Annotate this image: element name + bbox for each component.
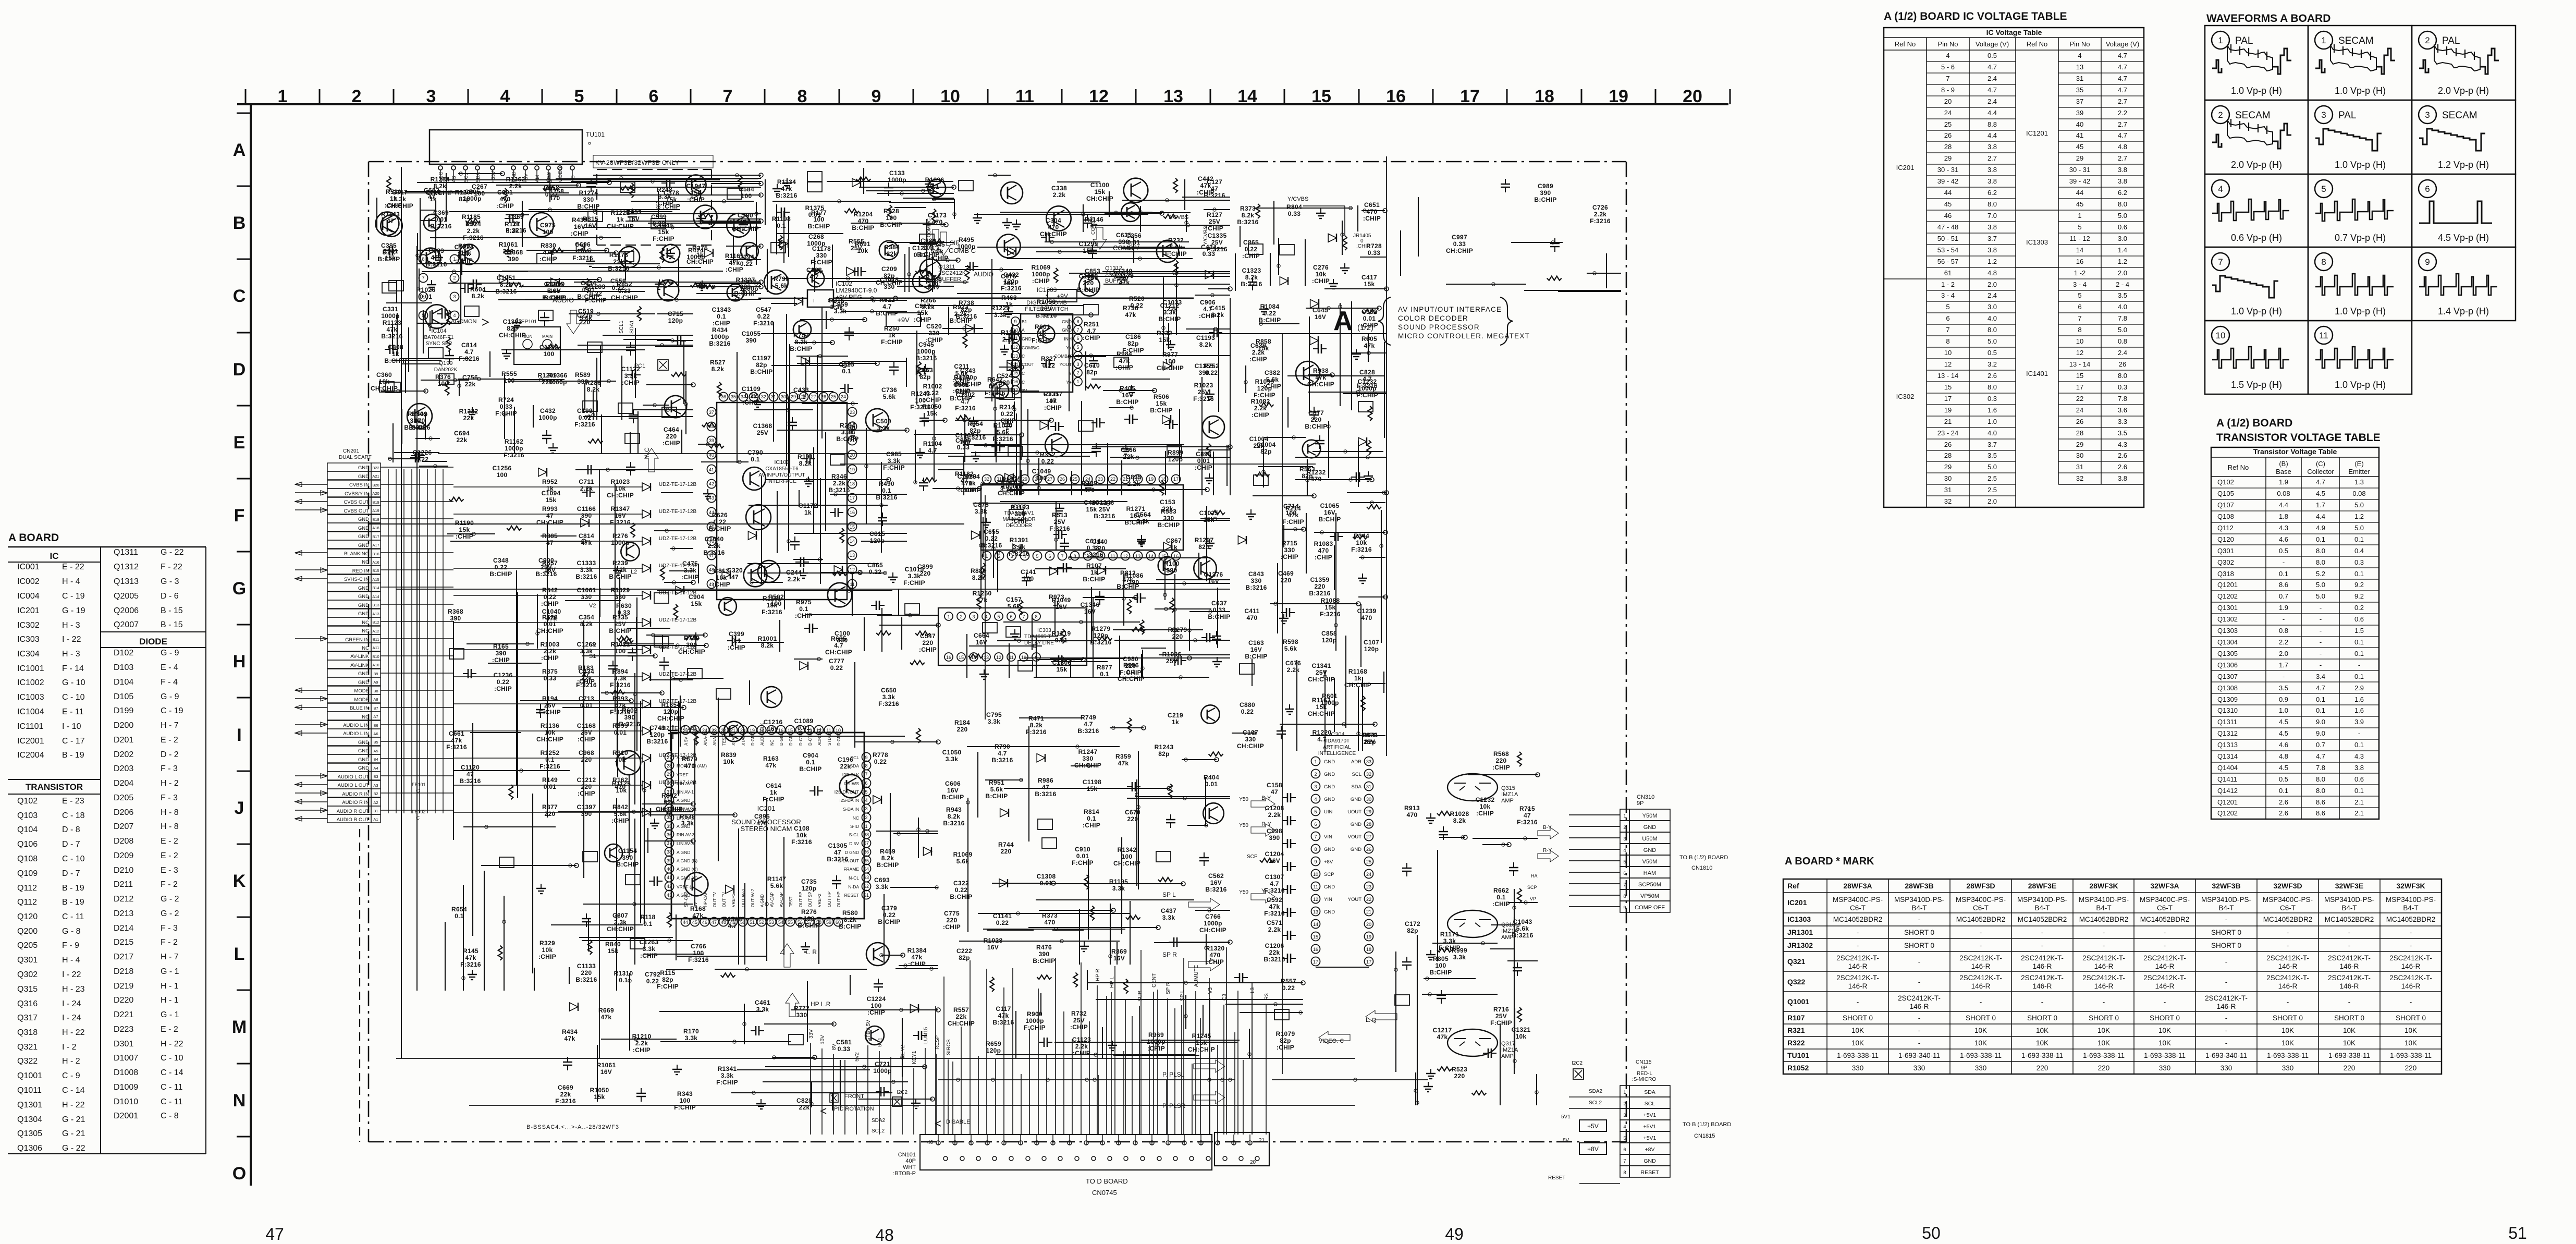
svg-text:36: 36 bbox=[667, 832, 672, 837]
svg-text:23: 23 bbox=[850, 410, 855, 415]
svg-text:Q200: Q200 bbox=[17, 927, 38, 936]
svg-text:C123: C123 bbox=[912, 245, 928, 252]
svg-text:BLANKING: BLANKING bbox=[344, 551, 369, 557]
svg-text:H - 4: H - 4 bbox=[62, 577, 80, 586]
svg-text:AUDIO R IN: AUDIO R IN bbox=[342, 791, 369, 797]
svg-text:C: C bbox=[1022, 380, 1025, 385]
svg-text:C880: C880 bbox=[1240, 701, 1255, 709]
svg-text:C469: C469 bbox=[1278, 570, 1294, 577]
svg-text:R796: R796 bbox=[774, 275, 789, 283]
svg-text:3.4: 3.4 bbox=[2316, 673, 2325, 680]
svg-text:IC1004: IC1004 bbox=[17, 708, 44, 716]
svg-text:D223: D223 bbox=[114, 1025, 133, 1034]
svg-text:C814: C814 bbox=[461, 342, 477, 349]
svg-text::CHIP: :CHIP bbox=[663, 440, 680, 447]
svg-text:0.22: 0.22 bbox=[1264, 310, 1277, 317]
svg-text:1-693-338-11: 1-693-338-11 bbox=[1960, 1052, 2002, 1059]
svg-text:15: 15 bbox=[1944, 383, 1952, 391]
svg-text:0.5: 0.5 bbox=[1988, 349, 1997, 357]
svg-text:GND: GND bbox=[1351, 822, 1361, 827]
svg-text:R804: R804 bbox=[1286, 203, 1302, 211]
svg-text:B:CHIP: B:CHIP bbox=[1318, 516, 1341, 523]
svg-text:15: 15 bbox=[1311, 87, 1331, 106]
svg-text:C1040: C1040 bbox=[542, 608, 561, 615]
svg-text:47k: 47k bbox=[1123, 576, 1134, 583]
svg-text:H - 22: H - 22 bbox=[161, 1040, 183, 1048]
svg-text:R322: R322 bbox=[1787, 1039, 1805, 1047]
svg-text:F:3216: F:3216 bbox=[1320, 611, 1341, 618]
svg-text:R789: R789 bbox=[1082, 480, 1097, 487]
svg-text:B:CHIP: B:CHIP bbox=[1116, 398, 1138, 406]
svg-text:3.3k: 3.3k bbox=[876, 883, 889, 891]
svg-text:C828: C828 bbox=[1359, 369, 1375, 376]
svg-text:40: 40 bbox=[2076, 120, 2083, 128]
svg-text:IC302: IC302 bbox=[17, 621, 40, 630]
svg-text:8.2k: 8.2k bbox=[712, 365, 725, 373]
svg-text:C645: C645 bbox=[1312, 307, 1328, 314]
svg-text:R321: R321 bbox=[1787, 1026, 1805, 1034]
svg-text:-: - bbox=[2041, 929, 2044, 936]
svg-text:Q316: Q316 bbox=[17, 999, 38, 1008]
svg-text:7: 7 bbox=[1022, 614, 1025, 619]
svg-text:R523: R523 bbox=[1452, 1066, 1467, 1073]
svg-text:220: 220 bbox=[1083, 279, 1094, 287]
svg-text:Q1301: Q1301 bbox=[2217, 604, 2238, 612]
svg-text:IC1303: IC1303 bbox=[1787, 915, 1811, 923]
svg-text:R251: R251 bbox=[1084, 321, 1099, 328]
svg-text:1k: 1k bbox=[888, 332, 896, 339]
svg-text::CHIP: :CHIP bbox=[577, 678, 595, 685]
svg-text:C107: C107 bbox=[1364, 639, 1379, 646]
svg-text:4.7: 4.7 bbox=[834, 642, 843, 649]
svg-text::CHIP: :CHIP bbox=[494, 685, 512, 692]
svg-text:B:CHIP: B:CHIP bbox=[384, 357, 407, 364]
svg-text:R250: R250 bbox=[884, 325, 900, 332]
svg-text:15k: 15k bbox=[1095, 188, 1106, 196]
svg-text:C900: C900 bbox=[955, 437, 971, 444]
svg-text:2SC2412K-T-: 2SC2412K-T- bbox=[1959, 974, 2002, 982]
svg-text:0.1: 0.1 bbox=[619, 977, 628, 984]
svg-text:46: 46 bbox=[1944, 212, 1952, 219]
svg-text:Q205: Q205 bbox=[17, 941, 38, 950]
svg-text::CHIP: :CHIP bbox=[728, 644, 745, 651]
svg-text:2: 2 bbox=[2425, 35, 2430, 45]
svg-text:R622: R622 bbox=[879, 296, 895, 303]
svg-text:100: 100 bbox=[814, 216, 825, 223]
svg-text:0.5: 0.5 bbox=[2279, 775, 2288, 783]
svg-text:1.3: 1.3 bbox=[2354, 478, 2364, 486]
svg-text:15k: 15k bbox=[1156, 400, 1167, 407]
svg-text:9.0: 9.0 bbox=[2316, 729, 2325, 737]
svg-text::CHIP: :CHIP bbox=[611, 817, 629, 824]
svg-text:F:3216: F:3216 bbox=[985, 389, 1005, 397]
svg-text:SCP: SCP bbox=[1324, 872, 1334, 877]
svg-text:Q1001: Q1001 bbox=[17, 1071, 42, 1080]
svg-text:C158: C158 bbox=[1267, 782, 1282, 789]
svg-text:R1347: R1347 bbox=[611, 505, 630, 513]
svg-text:CN101: CN101 bbox=[898, 1152, 916, 1158]
svg-text:B:CHIP: B:CHIP bbox=[1124, 519, 1147, 526]
svg-text:F:3216: F:3216 bbox=[1264, 910, 1285, 917]
svg-text:4: 4 bbox=[2078, 52, 2081, 59]
svg-text:R1147: R1147 bbox=[767, 875, 786, 883]
svg-text:5.6k: 5.6k bbox=[775, 282, 788, 289]
svg-text:390: 390 bbox=[624, 714, 635, 721]
svg-text:B4-T: B4-T bbox=[2218, 904, 2234, 912]
svg-text:32: 32 bbox=[984, 477, 989, 482]
svg-text:0.22: 0.22 bbox=[497, 678, 510, 686]
svg-text:146-R: 146-R bbox=[2155, 962, 2175, 970]
svg-text:C196: C196 bbox=[838, 756, 853, 763]
svg-text:R-Y: R-Y bbox=[1261, 821, 1272, 827]
svg-text:1.5: 1.5 bbox=[2354, 627, 2364, 635]
svg-text:GND: GND bbox=[1351, 797, 1361, 802]
svg-text:D211: D211 bbox=[114, 880, 133, 889]
svg-text:R753: R753 bbox=[793, 332, 809, 339]
svg-text:MSP3410D-PS-: MSP3410D-PS- bbox=[2324, 896, 2374, 904]
svg-text:2: 2 bbox=[865, 815, 867, 820]
svg-text:IC104: IC104 bbox=[431, 328, 446, 334]
svg-text:1000p: 1000p bbox=[538, 414, 557, 421]
svg-text:K: K bbox=[233, 871, 246, 891]
svg-text::CHIP: :CHIP bbox=[1011, 517, 1029, 525]
svg-text:146-R: 146-R bbox=[2217, 1003, 2236, 1010]
svg-text:B:CHIP: B:CHIP bbox=[949, 317, 972, 324]
svg-text:AGCMON: AGCMON bbox=[451, 319, 477, 325]
svg-text:R1049: R1049 bbox=[1052, 596, 1071, 604]
svg-text:0.1: 0.1 bbox=[842, 368, 851, 375]
svg-text:39: 39 bbox=[2076, 109, 2083, 117]
svg-text:4.7: 4.7 bbox=[2118, 75, 2127, 82]
svg-text::CHIP: :CHIP bbox=[1044, 404, 1062, 411]
svg-text:C717: C717 bbox=[392, 189, 408, 196]
svg-text:Base: Base bbox=[2276, 468, 2291, 475]
svg-text:390: 390 bbox=[450, 615, 461, 622]
svg-text:Q302: Q302 bbox=[17, 970, 38, 979]
svg-text:R232: R232 bbox=[1168, 237, 1184, 244]
svg-text:9: 9 bbox=[2425, 257, 2430, 267]
svg-text:B:CHIP: B:CHIP bbox=[807, 223, 830, 230]
svg-text:CH:CHIP: CH:CHIP bbox=[607, 223, 634, 230]
svg-text:C1355: C1355 bbox=[1195, 362, 1214, 370]
svg-text:A11: A11 bbox=[373, 645, 379, 650]
svg-text:SCP: SCP bbox=[1247, 854, 1258, 860]
svg-text:F:CHIP: F:CHIP bbox=[1282, 518, 1304, 526]
svg-text:19: 19 bbox=[1366, 934, 1371, 940]
svg-text:B4-T: B4-T bbox=[2341, 904, 2357, 912]
svg-text:B:CHIP: B:CHIP bbox=[790, 345, 812, 352]
svg-text::CHIP: :CHIP bbox=[1242, 252, 1260, 260]
svg-text:C599: C599 bbox=[651, 213, 667, 221]
svg-text:25: 25 bbox=[1944, 120, 1952, 128]
svg-text:IC002: IC002 bbox=[17, 577, 40, 586]
svg-text:TDA4665-T: TDA4665-T bbox=[1024, 634, 1051, 640]
svg-text:2: 2 bbox=[1623, 1101, 1626, 1107]
svg-text:R1023: R1023 bbox=[611, 478, 630, 485]
svg-text:8.2k: 8.2k bbox=[761, 642, 774, 649]
svg-text:3.8: 3.8 bbox=[1988, 143, 1997, 151]
svg-text:0.6: 0.6 bbox=[2118, 223, 2127, 231]
svg-text:B:3216: B:3216 bbox=[1245, 584, 1267, 591]
svg-text:A7: A7 bbox=[373, 714, 378, 719]
svg-text:4.7: 4.7 bbox=[928, 447, 937, 454]
svg-text:146-R: 146-R bbox=[2278, 982, 2298, 990]
svg-text:1 -2: 1 -2 bbox=[2074, 269, 2086, 277]
svg-text:R377: R377 bbox=[542, 803, 558, 811]
svg-text:D202: D202 bbox=[114, 750, 133, 759]
svg-text:G - 2: G - 2 bbox=[161, 909, 179, 918]
svg-text:8.0: 8.0 bbox=[2118, 200, 2127, 208]
svg-text:30 - 31: 30 - 31 bbox=[1937, 166, 1958, 174]
svg-text:F: F bbox=[234, 506, 245, 526]
svg-text:C1256: C1256 bbox=[493, 465, 512, 472]
svg-text:V3: V3 bbox=[1208, 987, 1213, 994]
svg-text:Q1201: Q1201 bbox=[2217, 798, 2238, 806]
svg-text:4.4: 4.4 bbox=[1988, 109, 1997, 117]
svg-text:B:CHIP: B:CHIP bbox=[1117, 583, 1139, 590]
svg-text:C1236: C1236 bbox=[494, 672, 513, 679]
svg-text:24: 24 bbox=[841, 394, 846, 399]
svg-text:330: 330 bbox=[2221, 1064, 2232, 1072]
svg-text:C382: C382 bbox=[1265, 369, 1280, 376]
svg-text:RESP: RESP bbox=[935, 1035, 940, 1050]
svg-text:A3: A3 bbox=[373, 783, 378, 788]
svg-text:47: 47 bbox=[834, 849, 841, 856]
svg-text:C958: C958 bbox=[544, 184, 559, 191]
svg-text:29: 29 bbox=[1366, 809, 1371, 814]
svg-text:A 5V: A 5V bbox=[684, 736, 689, 746]
svg-text:R149: R149 bbox=[542, 776, 558, 784]
svg-text:R695: R695 bbox=[831, 635, 847, 642]
svg-text:Ref No: Ref No bbox=[2027, 40, 2047, 48]
svg-text:100: 100 bbox=[544, 350, 555, 358]
svg-text:RESET: RESET bbox=[1640, 1169, 1659, 1176]
svg-text:D1010: D1010 bbox=[114, 1097, 138, 1106]
svg-text:R563: R563 bbox=[1299, 466, 1315, 473]
svg-text:TU101: TU101 bbox=[1787, 1051, 1809, 1059]
svg-text:0.01: 0.01 bbox=[579, 414, 592, 421]
svg-text:A: A bbox=[1333, 306, 1353, 336]
svg-text:WHT: WHT bbox=[903, 1164, 916, 1170]
svg-text:2SC2412K-T-: 2SC2412K-T- bbox=[2328, 954, 2371, 962]
svg-text:G - 9: G - 9 bbox=[161, 692, 179, 701]
svg-text:9P: 9P bbox=[1641, 1065, 1648, 1071]
svg-text:L: L bbox=[234, 944, 245, 964]
svg-text:F:3216: F:3216 bbox=[753, 320, 774, 327]
svg-text:1.0 Vp-p (H): 1.0 Vp-p (H) bbox=[2335, 306, 2386, 316]
svg-text:1.0 Vp-p (H): 1.0 Vp-p (H) bbox=[2335, 380, 2386, 390]
svg-text:5: 5 bbox=[1623, 1136, 1626, 1141]
svg-text:F:3216: F:3216 bbox=[791, 838, 812, 846]
svg-text:16V: 16V bbox=[1324, 509, 1335, 516]
svg-text:D - 6: D - 6 bbox=[161, 592, 179, 601]
svg-text:-: - bbox=[2283, 615, 2285, 623]
svg-text:-: - bbox=[1857, 929, 1859, 936]
svg-text:R580: R580 bbox=[842, 909, 858, 917]
svg-text:E - 2: E - 2 bbox=[161, 837, 178, 846]
svg-text:SHORT 0: SHORT 0 bbox=[2089, 1014, 2119, 1022]
svg-text:59: 59 bbox=[826, 920, 831, 925]
svg-text:8.2k: 8.2k bbox=[1453, 817, 1466, 824]
svg-text:B7: B7 bbox=[373, 706, 378, 711]
svg-text:0.1: 0.1 bbox=[1100, 670, 1109, 678]
svg-text:D208: D208 bbox=[114, 837, 133, 846]
svg-text:FRAME: FRAME bbox=[843, 867, 859, 872]
svg-text:Q2007: Q2007 bbox=[114, 620, 139, 629]
svg-text:3: 3 bbox=[1623, 836, 1626, 842]
svg-text:F:3216: F:3216 bbox=[610, 519, 631, 526]
svg-text:R107: R107 bbox=[1086, 562, 1102, 569]
svg-text:E - 4: E - 4 bbox=[161, 663, 178, 672]
svg-text:8.2k: 8.2k bbox=[1242, 212, 1255, 219]
svg-text:15k: 15k bbox=[459, 526, 470, 533]
svg-text:22k: 22k bbox=[1167, 306, 1178, 313]
svg-text:2.2k: 2.2k bbox=[833, 480, 846, 487]
svg-text:1.6: 1.6 bbox=[1988, 406, 1997, 414]
svg-text:21: 21 bbox=[1366, 909, 1371, 914]
svg-text:Q104: Q104 bbox=[17, 825, 38, 834]
svg-text:C: C bbox=[233, 286, 246, 306]
svg-text:120p: 120p bbox=[1322, 637, 1337, 644]
svg-text:0.1: 0.1 bbox=[2316, 535, 2325, 543]
svg-text:10K: 10K bbox=[2097, 1039, 2110, 1047]
svg-text:4.7: 4.7 bbox=[809, 273, 819, 280]
svg-text:2.4: 2.4 bbox=[1988, 97, 1997, 105]
svg-text:13 - 14: 13 - 14 bbox=[1937, 372, 1958, 380]
svg-text:19: 19 bbox=[1148, 477, 1154, 482]
svg-text:B:CHIP: B:CHIP bbox=[839, 923, 861, 930]
svg-text:R1168: R1168 bbox=[1348, 668, 1367, 675]
svg-text:0.33: 0.33 bbox=[1288, 210, 1301, 217]
svg-text:1k: 1k bbox=[1039, 330, 1046, 337]
svg-text:30: 30 bbox=[2076, 452, 2083, 459]
svg-text:10K: 10K bbox=[2158, 1039, 2171, 1047]
svg-text:3: 3 bbox=[1314, 784, 1317, 789]
svg-text:A18: A18 bbox=[372, 526, 379, 530]
svg-text:C384: C384 bbox=[884, 243, 900, 251]
svg-text:13: 13 bbox=[1163, 87, 1183, 106]
svg-text:47 - 48: 47 - 48 bbox=[1937, 223, 1958, 231]
svg-text:R165: R165 bbox=[493, 643, 509, 650]
svg-text:47k: 47k bbox=[387, 326, 398, 333]
svg-text:1-693-340-11: 1-693-340-11 bbox=[1898, 1052, 1940, 1059]
svg-text:-: - bbox=[2164, 998, 2166, 1006]
svg-text:F:CHIP: F:CHIP bbox=[657, 983, 679, 990]
svg-text:470: 470 bbox=[757, 820, 768, 827]
svg-text::CHIP: :CHIP bbox=[496, 202, 514, 210]
svg-text:C525: C525 bbox=[839, 361, 854, 368]
svg-text::CHIP: :CHIP bbox=[1264, 383, 1281, 390]
svg-text:B22: B22 bbox=[372, 466, 379, 470]
svg-text:F:3216: F:3216 bbox=[1193, 395, 1214, 403]
svg-text:0.22: 0.22 bbox=[416, 456, 429, 463]
svg-text:-: - bbox=[2358, 661, 2360, 669]
svg-text:H - 8: H - 8 bbox=[161, 808, 179, 817]
svg-text:C694: C694 bbox=[454, 430, 470, 437]
svg-text:C520: C520 bbox=[926, 323, 942, 330]
svg-text:120p: 120p bbox=[1168, 456, 1183, 463]
svg-text:1.7: 1.7 bbox=[2279, 661, 2288, 669]
svg-text:220: 220 bbox=[581, 756, 592, 763]
svg-text:CN1815: CN1815 bbox=[1694, 1133, 1715, 1139]
svg-text:I - 2: I - 2 bbox=[62, 1043, 77, 1052]
svg-text:A GND: A GND bbox=[760, 894, 765, 907]
svg-text:2SC2412K-T-: 2SC2412K-T- bbox=[2266, 954, 2309, 962]
svg-text:0.22: 0.22 bbox=[985, 535, 998, 542]
svg-text:R1052: R1052 bbox=[1787, 1064, 1809, 1072]
svg-text:C1061: C1061 bbox=[577, 587, 596, 594]
svg-text:0.22: 0.22 bbox=[495, 564, 508, 571]
svg-text:0.22: 0.22 bbox=[1041, 458, 1054, 465]
svg-text:0.01: 0.01 bbox=[1363, 315, 1376, 322]
svg-text:5.6k: 5.6k bbox=[547, 287, 560, 295]
svg-text:F - 22: F - 22 bbox=[161, 563, 182, 571]
svg-text:G - 22: G - 22 bbox=[62, 1144, 85, 1153]
svg-text:C - 14: C - 14 bbox=[62, 1086, 85, 1095]
svg-text:1: 1 bbox=[1623, 1090, 1626, 1095]
svg-text:NC: NC bbox=[770, 739, 775, 746]
svg-text:23: 23 bbox=[1098, 477, 1103, 482]
svg-text:H - 7: H - 7 bbox=[161, 721, 179, 730]
svg-text:B:3216: B:3216 bbox=[1090, 639, 1111, 646]
svg-text:1-693-338-11: 1-693-338-11 bbox=[2390, 1052, 2432, 1059]
svg-text:330: 330 bbox=[410, 417, 421, 424]
svg-text:0.22: 0.22 bbox=[883, 911, 896, 919]
svg-text:TO D BOARD: TO D BOARD bbox=[1086, 1177, 1128, 1185]
svg-text:146-R: 146-R bbox=[2033, 962, 2052, 970]
svg-text:66: 66 bbox=[864, 849, 869, 855]
svg-text:9: 9 bbox=[865, 755, 867, 760]
svg-text:C - 19: C - 19 bbox=[161, 706, 183, 715]
svg-text:H - 2: H - 2 bbox=[161, 779, 179, 788]
svg-text:Q315: Q315 bbox=[1501, 785, 1515, 791]
svg-text:9.2: 9.2 bbox=[2354, 581, 2364, 589]
svg-text:KEY1: KEY1 bbox=[912, 1051, 917, 1064]
svg-text:UDZ-TE-17-12B: UDZ-TE-17-12B bbox=[659, 482, 697, 487]
svg-text:R630: R630 bbox=[616, 602, 632, 609]
svg-text:5.0: 5.0 bbox=[1988, 337, 1997, 345]
svg-text:25: 25 bbox=[831, 394, 836, 399]
svg-text:Q107: Q107 bbox=[2217, 501, 2234, 509]
svg-text:120p: 120p bbox=[1094, 632, 1109, 639]
svg-text:28: 28 bbox=[1944, 452, 1952, 459]
svg-text:Q1309: Q1309 bbox=[2217, 696, 2238, 703]
svg-text:120p: 120p bbox=[650, 731, 665, 738]
svg-text:220: 220 bbox=[2405, 1064, 2417, 1072]
svg-text:8.2k: 8.2k bbox=[1245, 274, 1258, 281]
svg-text:C379: C379 bbox=[881, 905, 897, 912]
svg-text:GND: GND bbox=[1324, 909, 1335, 915]
svg-text:R1279: R1279 bbox=[1091, 625, 1111, 632]
svg-text:SCL1: SCL1 bbox=[619, 321, 624, 334]
svg-text:MAIN: MAIN bbox=[542, 334, 553, 339]
svg-text:3.8: 3.8 bbox=[2354, 764, 2364, 772]
svg-text:7: 7 bbox=[723, 87, 733, 106]
svg-text:SHORT 0: SHORT 0 bbox=[2150, 1014, 2180, 1022]
svg-text:R555: R555 bbox=[501, 370, 517, 377]
svg-text:2.0 Vp-p (H): 2.0 Vp-p (H) bbox=[2438, 86, 2489, 96]
svg-text:4.5: 4.5 bbox=[2279, 718, 2288, 726]
svg-text:12: 12 bbox=[1944, 360, 1952, 368]
svg-text:Voltage (V): Voltage (V) bbox=[2106, 40, 2139, 48]
svg-text:I - 24: I - 24 bbox=[62, 999, 81, 1008]
svg-text:R527: R527 bbox=[710, 359, 726, 366]
svg-text:5: 5 bbox=[997, 614, 1000, 619]
svg-text:-: - bbox=[2103, 998, 2105, 1006]
svg-text:MSP3410D-PS-: MSP3410D-PS- bbox=[2201, 896, 2251, 904]
svg-text:F:3216: F:3216 bbox=[572, 254, 593, 262]
svg-text:Q321: Q321 bbox=[1787, 957, 1805, 966]
